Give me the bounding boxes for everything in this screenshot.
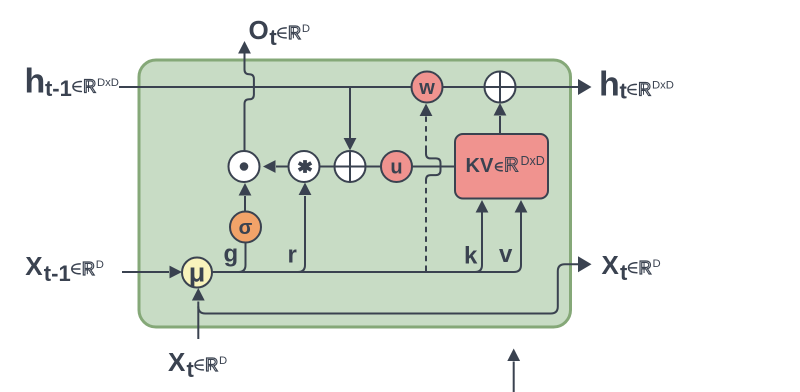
svg-text:DxD: DxD	[652, 80, 674, 92]
svg-text:g: g	[224, 241, 239, 268]
svg-text:v: v	[499, 241, 513, 268]
svg-text:O: O	[249, 15, 269, 45]
svg-text:σ: σ	[239, 217, 253, 239]
svg-text:t: t	[187, 357, 195, 382]
svg-text:R: R	[639, 257, 652, 278]
svg-text:D: D	[96, 259, 104, 271]
svg-text:X: X	[168, 347, 186, 377]
svg-text:t: t	[620, 260, 628, 285]
svg-text:R: R	[205, 354, 218, 375]
svg-text:X: X	[602, 250, 620, 280]
svg-text:h: h	[25, 63, 46, 101]
svg-text:R: R	[83, 76, 96, 97]
svg-text:DxD: DxD	[97, 77, 119, 89]
svg-text:u: u	[390, 157, 402, 179]
svg-text:r: r	[288, 242, 297, 269]
svg-text:h: h	[599, 66, 620, 104]
svg-text:t-1: t-1	[45, 76, 72, 101]
svg-text:t: t	[269, 25, 277, 50]
svg-text:D: D	[302, 23, 310, 35]
svg-text:R: R	[504, 154, 519, 177]
svg-text:w: w	[418, 77, 435, 99]
svg-text:D: D	[219, 355, 227, 367]
svg-text:R: R	[288, 22, 301, 43]
svg-text:R: R	[82, 258, 95, 279]
svg-text:t-1: t-1	[44, 261, 71, 286]
svg-text:t: t	[619, 79, 627, 104]
svg-text:k: k	[464, 243, 478, 270]
svg-text:R: R	[638, 79, 651, 100]
svg-text:X: X	[25, 251, 43, 281]
svg-text:μ: μ	[189, 258, 206, 288]
svg-text:DxD: DxD	[521, 154, 545, 168]
svg-text:D: D	[653, 258, 661, 270]
svg-text:KV: KV	[466, 155, 494, 177]
